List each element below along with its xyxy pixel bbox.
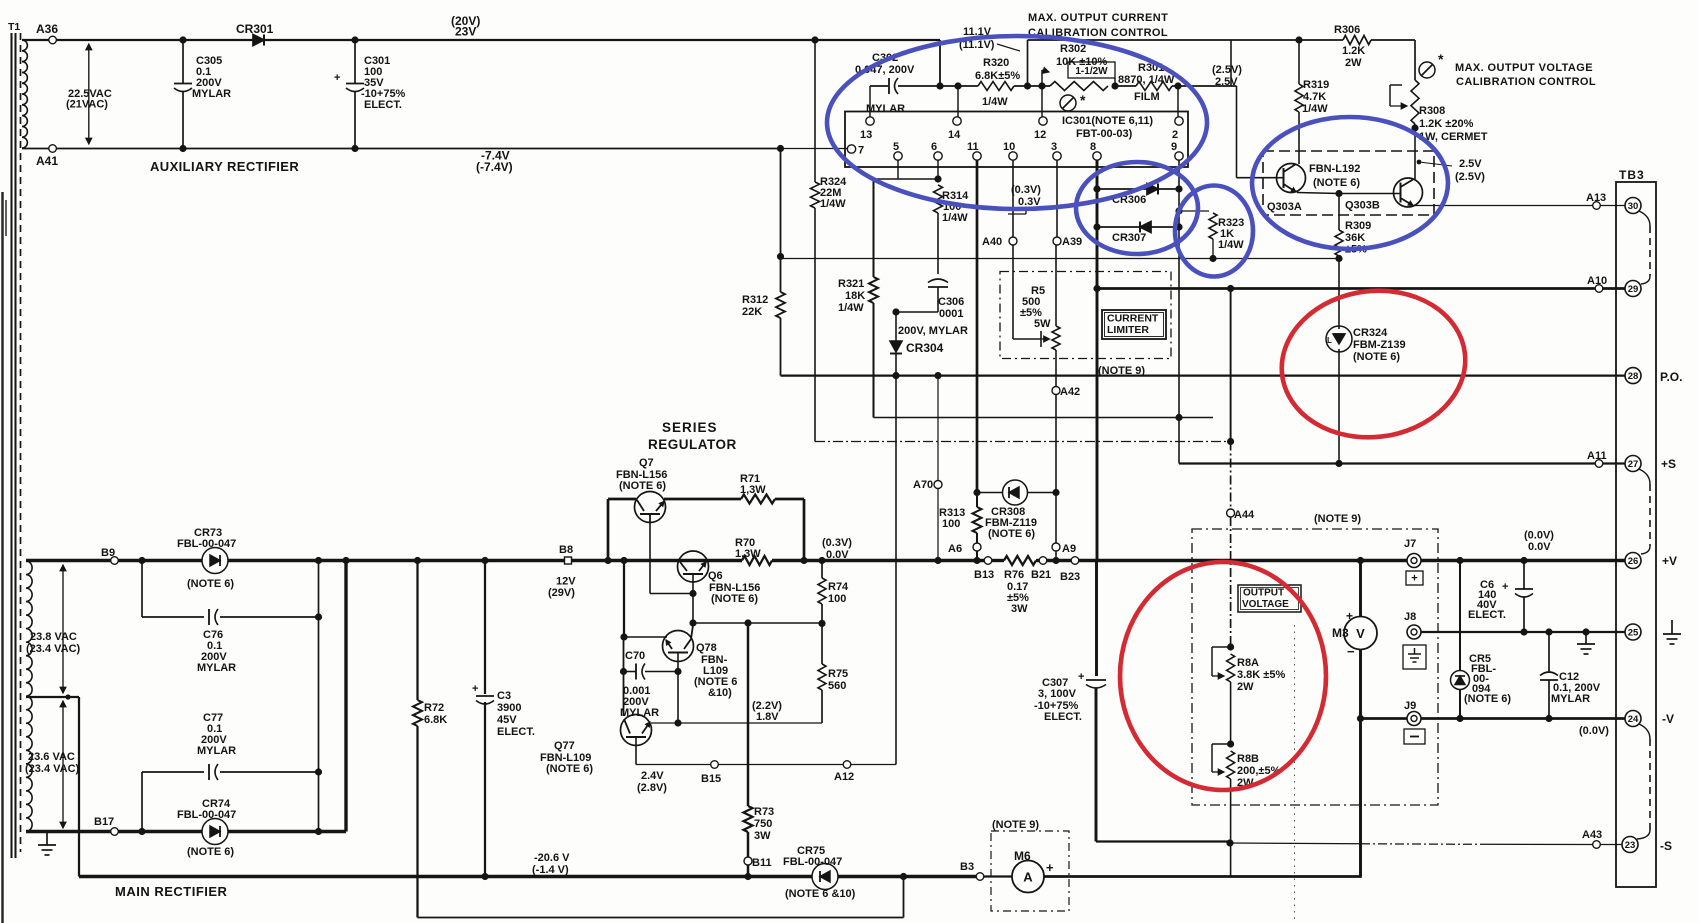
label MAX OUTPUT VOLTAGE CAL [1455, 62, 1596, 88]
node dot Q6 base [689, 590, 696, 597]
svg-text:R312: R312 [742, 294, 768, 306]
svg-text:A44: A44 [1234, 509, 1255, 521]
svg-text:LIMITER: LIMITER [1107, 324, 1149, 336]
svg-text:(2.5V): (2.5V) [1212, 64, 1242, 76]
diode CR324 in circle [1326, 326, 1406, 363]
node dot R323 bottom [1209, 255, 1216, 262]
svg-text:CR304: CR304 [906, 341, 944, 355]
wire pin11 column down [976, 179, 979, 493]
terminal 27 [1625, 456, 1676, 472]
node dot rail x417 [414, 557, 421, 564]
wire A42 to CR308 node [1055, 395, 1057, 493]
svg-text:(NOTE 6): (NOTE 6) [988, 528, 1035, 540]
node B13 [974, 557, 994, 581]
capacitor C70 [620, 650, 678, 719]
ground at transformer winding [38, 832, 56, 856]
node dot C305 bottom [179, 145, 186, 152]
svg-text:J8: J8 [1404, 611, 1416, 623]
svg-text:(NOTE 6): (NOTE 6) [1464, 693, 1511, 705]
svg-text:J9: J9 [1404, 700, 1416, 712]
node A6 [948, 543, 981, 555]
node dot M3 -V [1357, 715, 1364, 722]
wire 2.5V corner up [1230, 40, 1232, 86]
svg-text:P.O.: P.O. [1660, 370, 1682, 384]
node A36 [36, 22, 58, 44]
resistor R72 [413, 561, 447, 918]
svg-text:27: 27 [1628, 459, 1639, 470]
wire rail B9-CR73 [119, 559, 203, 562]
node dot rail2 x484 [481, 873, 488, 880]
resistor R309 [1335, 194, 1371, 327]
svg-text:FBL-00-047: FBL-00-047 [177, 809, 236, 821]
boxed - J9 [1404, 729, 1425, 744]
svg-text:−: − [1347, 644, 1355, 659]
wire bottom rail [79, 875, 812, 878]
wire CR5 column upper [1459, 561, 1461, 671]
transformer T1 auxiliary winding [22, 40, 27, 148]
node A39 [1053, 236, 1082, 248]
dashed box M6 NOTE 9 [991, 819, 1069, 911]
node dot x896 y312 [892, 308, 899, 315]
node dot A70 top [934, 372, 941, 379]
svg-text:3900: 3900 [497, 702, 521, 714]
wire rail B13-R76 [992, 559, 1005, 562]
svg-text:23.6 VAC: 23.6 VAC [28, 751, 75, 763]
svg-text:CR324: CR324 [1353, 327, 1388, 339]
wire +S from corner [1179, 462, 1625, 464]
node dot x748 y623 [744, 619, 751, 626]
resistor R321 [838, 179, 878, 418]
svg-text:R308: R308 [1419, 105, 1445, 117]
wire C306 to CR304 column [896, 287, 938, 312]
svg-text:(0.3V): (0.3V) [822, 537, 852, 549]
connector B8 [548, 544, 576, 599]
svg-text:1/4W: 1/4W [942, 212, 968, 224]
svg-text:FBM-Z139: FBM-Z139 [1353, 339, 1406, 351]
IC pin 6 [931, 141, 942, 179]
capacitor C301 [334, 43, 406, 149]
wire x623 y637-717 [623, 637, 625, 716]
svg-text:R309: R309 [1345, 220, 1371, 232]
terminal 24 [1625, 711, 1674, 727]
wire Q78 base down [677, 672, 679, 724]
svg-text:1/4W: 1/4W [1302, 103, 1328, 115]
capacitor C77 [197, 712, 236, 780]
page edge artifact [3, 192, 7, 923]
svg-text:1/4W: 1/4W [982, 96, 1008, 108]
svg-text:IC301(NOTE 6,11): IC301(NOTE 6,11) [1062, 115, 1153, 127]
capacitor C76 [197, 609, 236, 674]
wire R5 column to A42 [1055, 350, 1057, 387]
node dot x1299 y40 [1295, 36, 1302, 43]
svg-text:(2.8V): (2.8V) [637, 782, 667, 794]
wire C302 to R320 [898, 85, 978, 87]
svg-text:(NOTE 6 &10): (NOTE 6 &10) [785, 888, 856, 900]
transistor Q7 [616, 457, 667, 523]
node A42 [1052, 386, 1080, 398]
diode CR307 row [1097, 222, 1179, 245]
node dot row x940 [936, 82, 943, 89]
svg-text:R8A: R8A [1237, 657, 1259, 669]
boxed + J7 [1406, 571, 1423, 585]
wire -V line [1361, 717, 1625, 720]
svg-text:100: 100 [828, 593, 846, 605]
svg-text:A39: A39 [1062, 236, 1082, 248]
svg-text:6: 6 [931, 141, 937, 153]
node dot +S x1339 [1335, 460, 1342, 467]
wire C76 branch [142, 561, 319, 618]
svg-text:FBN-L192: FBN-L192 [1309, 163, 1360, 175]
svg-text:(NOTE 6): (NOTE 6) [619, 480, 666, 492]
svg-text:8: 8 [1090, 141, 1096, 153]
svg-text:0.0V: 0.0V [1528, 541, 1551, 553]
svg-text:Q77: Q77 [554, 740, 575, 752]
dashed box Q303 [1263, 151, 1434, 215]
wire pin8 column down [1096, 227, 1099, 289]
svg-text:-S: -S [1660, 839, 1672, 853]
transformer T1 main secondary winding [26, 561, 32, 831]
meter M6 [1012, 849, 1054, 893]
node dot rail x1360 [1357, 557, 1364, 564]
wire A12 to corner [851, 764, 896, 766]
node dot row x1042 pin12 [1038, 82, 1045, 116]
svg-text:+: + [472, 683, 478, 695]
measure arrow 23.8VAC [26, 565, 81, 693]
svg-text:CR301: CR301 [236, 22, 274, 36]
wire R71 corner down [775, 499, 804, 561]
svg-text:CALIBRATION CONTROL: CALIBRATION CONTROL [1456, 76, 1596, 88]
wire P.O. line [781, 374, 1625, 376]
terminal 30 [1625, 198, 1641, 214]
wire A43 to TB3 [1601, 844, 1623, 846]
measure arrow 23.6VAC [25, 701, 80, 828]
svg-text:MAX. OUTPUT VOLTAGE: MAX. OUTPUT VOLTAGE [1455, 62, 1593, 74]
label SERIES REGULATOR [648, 420, 737, 452]
node dot rail x318 [315, 557, 322, 564]
svg-text:A36: A36 [36, 22, 58, 36]
IC pin 5 [893, 141, 902, 179]
resistor R75 [818, 623, 848, 723]
svg-text:R8B: R8B [1237, 753, 1259, 765]
node dot CR308 right [1052, 489, 1059, 496]
blue ellipse around CR306 CR307 [1076, 162, 1198, 254]
resistor R76 on rail [1004, 556, 1036, 615]
svg-text:Q303A: Q303A [1267, 201, 1302, 213]
svg-text:R321: R321 [838, 278, 864, 290]
svg-text:10K ±10%: 10K ±10% [1056, 56, 1108, 68]
wire pin8 column down [1096, 289, 1099, 561]
resistor R306 [1334, 24, 1371, 69]
IC pin 9 [1171, 141, 1183, 189]
diode CR5 in circle [1451, 653, 1512, 705]
svg-text:R306: R306 [1334, 24, 1360, 36]
node dot C301 top [351, 36, 358, 43]
svg-text:11: 11 [967, 141, 979, 153]
wire CR324 column [1338, 326, 1340, 464]
svg-text:22K: 22K [742, 306, 762, 318]
svg-text:M6: M6 [1014, 849, 1031, 863]
wire 2.5V corner down to Q303A base [1237, 86, 1278, 178]
node dot x693 y623 [689, 619, 696, 626]
svg-text:1,3W: 1,3W [740, 484, 766, 496]
svg-text:FBT-00-03): FBT-00-03) [1076, 128, 1133, 140]
wire B15 to A12 [719, 764, 844, 766]
node A43 [1582, 829, 1602, 848]
svg-text:A12: A12 [834, 771, 854, 783]
terminal 28 [1625, 368, 1682, 384]
svg-text:1/4W: 1/4W [820, 198, 846, 210]
wire stub loop [418, 877, 904, 918]
wire pin9 column down to +S corner [1178, 227, 1180, 464]
svg-text:R76: R76 [1004, 569, 1024, 581]
dashed box output NOTE 9 [1192, 513, 1438, 805]
node A13 [1586, 192, 1606, 209]
wire A36 winding to node A36 [22, 39, 49, 41]
svg-text:23V: 23V [455, 25, 476, 39]
svg-text:0001: 0001 [939, 308, 963, 320]
capacitor C305 [174, 43, 231, 149]
wire bus y258 [781, 258, 1340, 260]
IC pin 11 [967, 141, 981, 179]
resistor R314 [934, 185, 970, 224]
node dot x1230 y841 [1226, 839, 1233, 846]
svg-text:L: L [1327, 336, 1332, 345]
svg-text:C70: C70 [625, 650, 645, 662]
svg-text:+: + [334, 72, 340, 84]
svg-text:V: V [1356, 626, 1365, 641]
svg-text:J7: J7 [1404, 538, 1416, 550]
potentiometer R8B [1212, 744, 1281, 789]
wire R8B down [1230, 779, 1232, 877]
resistor R312 [742, 257, 785, 376]
transistor Q78 [663, 625, 738, 699]
wire y723 bus [651, 722, 822, 724]
node A70 [913, 479, 942, 491]
node A11 [1587, 450, 1607, 467]
svg-text:A40: A40 [982, 236, 1002, 248]
svg-text:A43: A43 [1582, 829, 1602, 841]
wire B3 to M6 [984, 875, 1012, 877]
jack J7 [1404, 538, 1421, 568]
svg-text:12V: 12V [556, 576, 576, 588]
wire M6 to M3 corner [1044, 875, 1362, 878]
node dot row x1115 [1111, 82, 1118, 89]
node dot x1230 y288 [1227, 285, 1234, 292]
node B3 [960, 861, 984, 880]
node dot R8A top [1227, 643, 1234, 650]
svg-text:B8: B8 [559, 544, 573, 556]
svg-text:T1: T1 [8, 21, 20, 33]
node dots CR306 [1093, 185, 1182, 192]
wire A36 to corner at x936 [57, 39, 940, 41]
svg-text:ELECT.: ELECT. [1468, 609, 1506, 621]
node dot top wire x815 [811, 36, 818, 43]
dotted vertical fold mark [1294, 625, 1296, 920]
node dot pin9 col y211 [1175, 207, 1182, 214]
potentiometer R308 [1390, 80, 1488, 163]
boxed label OUTPUT VOLTAGE [1238, 585, 1301, 612]
transistor Q6 on rail [678, 551, 761, 605]
ground at wire y632 [1577, 632, 1595, 654]
svg-text:+: + [1346, 609, 1353, 623]
meter M3 [1332, 609, 1377, 659]
svg-text:TB3: TB3 [1619, 168, 1645, 182]
wire jog bus y179 [874, 178, 939, 180]
svg-text:A: A [1023, 870, 1033, 885]
node dot x1097 y288 [1093, 285, 1100, 292]
node B17 [94, 816, 118, 835]
diode CR306 row [1097, 184, 1179, 207]
node B21 [1031, 557, 1051, 581]
node B15 [701, 761, 721, 785]
node dot rail x485 [481, 557, 488, 564]
wire Q7 riser [608, 499, 636, 561]
svg-text:18K: 18K [845, 290, 865, 302]
svg-text:CURRENT: CURRENT [1107, 313, 1159, 325]
wire B15 A12 line [636, 764, 711, 766]
node dot x678 y723 [674, 719, 681, 726]
transformer T1 core lines [12, 33, 16, 858]
wire x318 C76-C77 link [315, 613, 322, 775]
terminal 25 [1625, 624, 1641, 640]
node dot CR308 left [973, 489, 980, 496]
node dot emitter bus [1335, 190, 1342, 197]
terminal 26 [1625, 553, 1677, 569]
svg-text:R319: R319 [1303, 79, 1329, 91]
wire pin8 col CR306-CR307 [1096, 189, 1099, 227]
diode CR75 in circle [783, 845, 856, 900]
svg-text:(NOTE 6): (NOTE 6) [1313, 177, 1360, 189]
IC IC301 box [845, 112, 1188, 168]
label 2.4V [637, 770, 667, 794]
node dot x896 y375 [892, 372, 899, 379]
wire C77 branch [142, 772, 319, 832]
wire R314 to C306 [937, 213, 939, 274]
svg-text:*: * [1080, 92, 1086, 108]
node dot row x1027 [1024, 82, 1031, 89]
node dot rail x608 [604, 557, 611, 564]
ground symbol TB3 25 [1663, 620, 1681, 644]
svg-text:(0.0V): (0.0V) [1524, 530, 1554, 542]
svg-text:(-1.4 V): (-1.4 V) [532, 864, 569, 876]
capacitor C12 [1540, 632, 1601, 719]
wire B11 to rail [747, 865, 749, 877]
dashed link 27-26 [1639, 469, 1650, 554]
wire CR304 column down to A12 corner [895, 376, 897, 765]
diode CR73 in circle [177, 527, 236, 590]
svg-text:(NOTE 6): (NOTE 6) [711, 593, 758, 605]
wire -S line [1230, 843, 1593, 845]
node dot R309 y258 [1335, 255, 1342, 262]
svg-text:ELECT.: ELECT. [1044, 711, 1082, 723]
wire CR308 right col to A9 [1055, 493, 1057, 544]
svg-text:Q303B: Q303B [1345, 200, 1380, 212]
diode CR308 in circle [977, 480, 1056, 540]
node dot C70 right Q78 base [674, 668, 681, 675]
wire CR5 column lower [1459, 690, 1461, 719]
wire pin8 col below rail [1095, 561, 1098, 677]
blue ellipse around Q303 [1252, 117, 1448, 249]
svg-text:&10): &10) [708, 687, 732, 699]
potentiometer R8A [1212, 647, 1285, 693]
svg-text:6.8K±5%: 6.8K±5% [975, 70, 1020, 82]
node dot x318 y831 [315, 828, 322, 835]
svg-text:M3: M3 [1332, 626, 1349, 640]
node dot R8B top [1227, 740, 1234, 747]
svg-text:+V: +V [1662, 554, 1677, 568]
node dot y441 x1230 [1227, 438, 1234, 445]
wire A41 winding to node [22, 148, 49, 150]
svg-text:2: 2 [1172, 129, 1178, 141]
svg-text:560: 560 [828, 680, 846, 692]
IC pin 7 [847, 145, 864, 157]
node dot x780 y256 [777, 253, 784, 260]
label -7.4V [476, 149, 513, 175]
label FBN-L192 [1309, 163, 1360, 189]
svg-text:REGULATOR: REGULATOR [648, 437, 737, 452]
node dot row x1178 pin2 [1174, 82, 1181, 116]
resistor R70 on rail [735, 537, 772, 565]
svg-text:(NOTE 6): (NOTE 6) [1353, 351, 1400, 363]
svg-text:(-7.4V): (-7.4V) [476, 160, 513, 174]
wire R320 to R302 [1014, 85, 1050, 87]
label AUXILIARY RECTIFIER [150, 159, 299, 174]
wire B17 to CR74 [119, 830, 203, 833]
svg-text:3W: 3W [754, 830, 771, 842]
node dot rail x1460 [1456, 557, 1463, 564]
IC pin 2 [1172, 117, 1183, 141]
resistor R301 [1118, 62, 1175, 103]
node dot C305 top [179, 36, 186, 43]
svg-text:CR307: CR307 [1112, 232, 1146, 244]
node dot row x958 pin14 [954, 82, 961, 116]
node dots CR307 [1093, 223, 1182, 230]
svg-text:+: + [1502, 581, 1508, 593]
svg-text:R320: R320 [983, 57, 1009, 69]
resistor R320 [975, 57, 1020, 108]
node dot y417 x1179 [1175, 414, 1182, 421]
svg-text:8870, 1/4W: 8870, 1/4W [1118, 74, 1175, 86]
wire y637 into Q78 [624, 636, 667, 638]
svg-text:(23.4 VAC): (23.4 VAC) [25, 763, 80, 775]
wire Q303A emitter bus [1297, 193, 1400, 194]
svg-text:1,3W: 1,3W [735, 548, 761, 560]
svg-text:(2.5V): (2.5V) [1455, 171, 1485, 183]
wire A9 to rail [1055, 551, 1057, 561]
boxed gnd J8 [1403, 645, 1426, 669]
node dot C12 bottom [1545, 715, 1552, 722]
svg-text:14: 14 [948, 129, 961, 141]
svg-text:36K: 36K [1345, 232, 1365, 244]
svg-text:A9: A9 [1062, 543, 1076, 555]
svg-text:C306: C306 [938, 296, 964, 308]
transistor Q77 [540, 715, 652, 776]
wire x624 down [623, 561, 625, 638]
node dot CR5 -V [1456, 715, 1463, 722]
svg-text:FILM: FILM [1134, 91, 1160, 103]
svg-text:24: 24 [1628, 714, 1639, 725]
wire Q303B emitter to A13 [1413, 205, 1593, 207]
node B9 [101, 547, 118, 564]
label (0.0V) 0.0V rail [1524, 530, 1554, 554]
svg-text:28: 28 [1628, 371, 1639, 382]
wire 11.1V riser [1027, 40, 1029, 86]
wire Q6 base to Q78 [692, 594, 694, 624]
resistor R313 [939, 493, 982, 544]
label 0.3V with leader [1008, 184, 1041, 214]
svg-text:A13: A13 [1586, 192, 1606, 204]
red ellipse around R8A R8B [1120, 562, 1326, 790]
